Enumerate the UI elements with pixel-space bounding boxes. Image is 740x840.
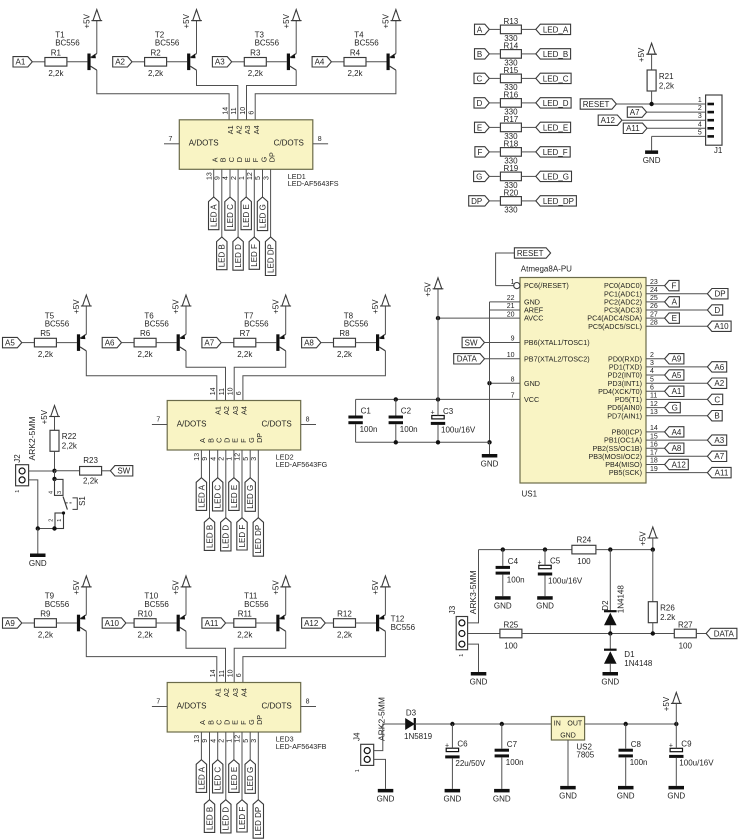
- net tag LED_C: [536, 73, 571, 83]
- net tag A6: [707, 362, 726, 372]
- svg-text:C2: C2: [401, 407, 412, 416]
- wire: [490, 301, 521, 303]
- svg-text:A3: A3: [215, 58, 225, 67]
- resistor R10: [134, 619, 156, 628]
- wire: [209, 450, 211, 518]
- wire: [374, 724, 406, 751]
- svg-text:IN: IN: [554, 720, 561, 727]
- wire: [54, 451, 56, 471]
- wire: [489, 126, 500, 128]
- svg-text:21: 21: [507, 303, 515, 310]
- resistor R5: [34, 338, 56, 347]
- wire: [325, 622, 333, 624]
- ground: [471, 672, 487, 676]
- wire: [521, 175, 535, 177]
- wire: [301, 424, 316, 426]
- svg-text:C/DOTS: C/DOTS: [274, 139, 304, 148]
- svg-text:2: 2: [219, 457, 226, 461]
- wire: [167, 61, 188, 63]
- wire: [301, 706, 316, 708]
- svg-text:10: 10: [240, 107, 247, 115]
- wire: [196, 21, 198, 54]
- wire: [384, 587, 386, 615]
- resistor R24: [572, 545, 596, 554]
- svg-text:C9: C9: [681, 740, 692, 749]
- net tag LED_E: [536, 122, 571, 132]
- net tag D: [474, 98, 489, 108]
- wire: [243, 351, 386, 401]
- svg-text:R19: R19: [504, 164, 519, 173]
- svg-text:7: 7: [156, 417, 160, 424]
- svg-text:PC6(/RESET): PC6(/RESET): [524, 281, 569, 290]
- svg-text:LED C: LED C: [226, 204, 235, 228]
- svg-text:5: 5: [698, 129, 702, 136]
- svg-text:C4: C4: [508, 557, 519, 566]
- +5V supply: [182, 576, 190, 587]
- wire: [616, 103, 705, 105]
- net tag LED C: [213, 478, 223, 511]
- junction: [651, 631, 655, 635]
- svg-text:A4: A4: [240, 688, 249, 697]
- resistor R14: [500, 50, 521, 59]
- svg-text:SW: SW: [465, 338, 478, 347]
- svg-text:2,2k: 2,2k: [48, 69, 64, 78]
- svg-text:4: 4: [650, 368, 654, 375]
- net tag RESET: [580, 99, 616, 109]
- svg-text:LED E: LED E: [230, 485, 239, 508]
- net tag LED D: [221, 800, 231, 833]
- svg-text:GND: GND: [444, 794, 462, 803]
- svg-text:11: 11: [650, 393, 657, 400]
- junction: [394, 397, 398, 401]
- svg-text:+5V: +5V: [271, 580, 280, 595]
- transistor T4: [387, 54, 390, 71]
- svg-text:C6: C6: [457, 740, 468, 749]
- wire: [200, 732, 202, 760]
- wire: [651, 91, 653, 104]
- svg-text:5: 5: [255, 176, 262, 180]
- +5V supply: [83, 576, 91, 587]
- capacitor C9: [670, 748, 682, 751]
- wire: [384, 306, 386, 334]
- svg-text:LED A: LED A: [197, 766, 206, 789]
- svg-text:14: 14: [210, 669, 217, 677]
- wire: [270, 169, 272, 237]
- net tag LED F: [237, 518, 247, 550]
- wire: [233, 732, 235, 760]
- junction: [394, 440, 398, 444]
- svg-text:100u/16V: 100u/16V: [679, 759, 714, 768]
- resistor R11: [234, 619, 256, 628]
- net tag LED F: [249, 237, 259, 269]
- wire: [646, 439, 707, 441]
- +5V supply: [392, 10, 400, 21]
- svg-text:+5V: +5V: [82, 13, 91, 28]
- svg-text:C1: C1: [361, 407, 372, 416]
- resistor R2: [145, 58, 167, 67]
- svg-text:7: 7: [511, 393, 515, 400]
- svg-text:F: F: [477, 148, 482, 157]
- junction: [543, 547, 547, 551]
- display LED1 LED-AF5643FS: [179, 120, 312, 170]
- net tag A1: [13, 57, 32, 67]
- ground: [495, 596, 511, 600]
- svg-text:8: 8: [318, 136, 322, 143]
- svg-text:A8: A8: [672, 444, 682, 453]
- resistor R22: [50, 430, 59, 451]
- wire: [646, 374, 665, 376]
- svg-text:1N4148: 1N4148: [624, 659, 653, 668]
- svg-text:15: 15: [650, 433, 658, 440]
- svg-text:+5V: +5V: [382, 13, 391, 28]
- svg-text:LED D: LED D: [234, 244, 243, 268]
- svg-text:DP: DP: [714, 290, 725, 299]
- svg-text:A7: A7: [714, 452, 724, 461]
- net tag LED_D: [536, 98, 571, 108]
- wire: [544, 550, 546, 566]
- net tag G: [474, 171, 490, 181]
- svg-text:BC556: BC556: [45, 600, 70, 609]
- wire: [496, 285, 514, 287]
- wire: [355, 399, 357, 415]
- svg-text:A11: A11: [715, 469, 729, 478]
- net tag LED DP: [253, 518, 263, 557]
- net tag LED_G: [536, 171, 572, 181]
- svg-text:GND: GND: [524, 379, 540, 388]
- svg-text:A9: A9: [672, 355, 682, 364]
- svg-text:E: E: [477, 123, 482, 132]
- svg-text:US1: US1: [522, 490, 538, 499]
- wire: [225, 450, 227, 518]
- net tag A8: [302, 337, 321, 347]
- svg-text:GND: GND: [470, 677, 488, 686]
- svg-text:A12: A12: [304, 619, 319, 628]
- svg-text:A7: A7: [204, 339, 214, 348]
- svg-text:BC556: BC556: [255, 39, 280, 48]
- wire: [609, 664, 611, 672]
- resistor R23: [80, 467, 102, 476]
- svg-text:VCC: VCC: [524, 395, 539, 404]
- svg-text:+5V: +5V: [371, 299, 380, 314]
- svg-text:2: 2: [219, 739, 226, 743]
- svg-text:R17: R17: [504, 115, 519, 124]
- svg-text:GND: GND: [559, 791, 577, 800]
- svg-text:+5V: +5V: [271, 299, 280, 314]
- svg-text:100: 100: [504, 641, 518, 650]
- svg-text:A3: A3: [231, 688, 240, 697]
- svg-text:2,2k: 2,2k: [248, 69, 264, 78]
- +5V supply: [83, 295, 91, 306]
- svg-text:R23: R23: [83, 456, 98, 465]
- svg-text:1N4148: 1N4148: [617, 585, 626, 614]
- ground: [618, 786, 634, 790]
- wire: [521, 77, 535, 79]
- svg-text:R24: R24: [577, 535, 592, 544]
- net tag A4: [312, 57, 331, 67]
- net tag A9: [3, 618, 22, 628]
- svg-text:PB6(XTAL1/TOSC1): PB6(XTAL1/TOSC1): [524, 338, 590, 347]
- junction: [52, 469, 56, 473]
- svg-text:28: 28: [650, 319, 658, 326]
- wire: [485, 358, 521, 360]
- svg-text:13: 13: [206, 172, 213, 180]
- svg-text:5: 5: [243, 457, 250, 461]
- net tag SW: [462, 337, 484, 347]
- svg-text:5: 5: [243, 739, 250, 743]
- svg-text:A/DOTS: A/DOTS: [189, 139, 219, 148]
- wire: [313, 143, 328, 145]
- svg-text:LED_C: LED_C: [543, 74, 569, 83]
- svg-text:B: B: [714, 412, 719, 421]
- svg-text:A11: A11: [205, 619, 219, 628]
- junction: [436, 397, 440, 401]
- wire: [221, 169, 223, 237]
- svg-text:LED G: LED G: [246, 767, 255, 791]
- net tag G: [665, 402, 681, 412]
- svg-text:14: 14: [222, 107, 229, 115]
- svg-text:R1: R1: [51, 48, 62, 57]
- wire: [255, 70, 396, 120]
- svg-text:G: G: [672, 403, 678, 412]
- net tag D: [707, 305, 722, 315]
- svg-text:2,2k: 2,2k: [38, 630, 54, 639]
- net tag LED DP: [253, 800, 263, 839]
- net tag LED_B: [536, 49, 571, 59]
- wire: [321, 342, 334, 344]
- svg-text:ARK3-5MM: ARK3-5MM: [468, 570, 478, 614]
- junction: [500, 722, 504, 726]
- junction: [436, 440, 440, 444]
- svg-text:2,2k: 2,2k: [237, 350, 253, 359]
- wire: [234, 351, 286, 401]
- net tag B: [475, 49, 490, 59]
- capacitor C2: [389, 416, 403, 419]
- wire: [295, 21, 297, 54]
- net tag A12: [598, 115, 622, 125]
- transistor T11: [276, 615, 279, 632]
- svg-text:2,2k: 2,2k: [138, 630, 154, 639]
- wire: [152, 706, 167, 708]
- svg-text:PB5(SCK): PB5(SCK): [609, 468, 642, 477]
- wire: [122, 342, 135, 344]
- svg-text:LED C: LED C: [214, 485, 223, 509]
- wire: [86, 631, 217, 682]
- wire: [37, 529, 39, 554]
- svg-text:GND: GND: [667, 791, 685, 800]
- svg-text:4: 4: [210, 457, 217, 461]
- ground: [30, 554, 46, 558]
- svg-text:LED_D: LED_D: [543, 99, 569, 108]
- junction: [608, 547, 612, 551]
- svg-text:+: +: [445, 742, 449, 749]
- capacitor C7: [495, 749, 509, 752]
- svg-text:+5V: +5V: [172, 299, 181, 314]
- net tag LED F: [237, 800, 247, 832]
- wire: [646, 301, 665, 303]
- svg-text:10: 10: [228, 669, 235, 677]
- svg-text:LED D: LED D: [222, 525, 231, 549]
- svg-text:D2: D2: [601, 600, 610, 611]
- wire: [502, 575, 504, 597]
- svg-text:A1: A1: [226, 125, 235, 134]
- wire: [85, 587, 87, 615]
- svg-text:LED B: LED B: [205, 525, 214, 548]
- junction: [36, 526, 40, 530]
- wire: [355, 424, 357, 442]
- wire: [468, 550, 479, 623]
- svg-text:LED_A: LED_A: [543, 25, 569, 34]
- wire: [257, 732, 259, 800]
- wire: [395, 424, 397, 442]
- wire: [249, 732, 251, 760]
- svg-text:26: 26: [650, 303, 658, 310]
- svg-text:R4: R4: [350, 48, 361, 57]
- svg-text:12: 12: [235, 735, 242, 743]
- wire: [197, 70, 238, 120]
- transistor T7: [276, 334, 279, 351]
- svg-text:R13: R13: [504, 17, 519, 26]
- svg-text:R11: R11: [238, 610, 253, 619]
- wire: [521, 53, 535, 55]
- svg-text:LED_DP: LED_DP: [543, 197, 574, 206]
- svg-text:GND: GND: [481, 459, 499, 468]
- wire: [438, 317, 520, 319]
- net tag A5: [3, 337, 22, 347]
- ground: [445, 789, 461, 793]
- svg-text:2,2k: 2,2k: [337, 350, 353, 359]
- net tag C: [474, 73, 489, 83]
- net tag A11: [707, 467, 731, 477]
- net tag C: [707, 394, 722, 404]
- net tag SW: [110, 466, 132, 476]
- wire (ground rail): [356, 441, 490, 443]
- net tag A12: [665, 459, 689, 469]
- ground: [482, 454, 498, 458]
- net tag LED E: [241, 197, 251, 230]
- resistor R27: [674, 629, 696, 638]
- svg-text:D: D: [714, 306, 720, 315]
- wire: [675, 724, 677, 748]
- svg-text:A/DOTS: A/DOTS: [177, 701, 207, 710]
- junction: [674, 722, 678, 726]
- svg-text:100u/16V: 100u/16V: [548, 576, 583, 585]
- wire: [200, 450, 202, 478]
- net tag A12: [302, 618, 326, 628]
- wire: [646, 472, 707, 474]
- capacitor C1: [348, 416, 362, 419]
- +5V supply: [382, 576, 390, 587]
- svg-text:2,2k: 2,2k: [138, 350, 154, 359]
- svg-text:+5V: +5V: [72, 580, 81, 595]
- svg-text:A/DOTS: A/DOTS: [177, 419, 207, 428]
- svg-text:GND: GND: [560, 733, 576, 740]
- svg-text:9: 9: [202, 457, 209, 461]
- svg-text:LED DP: LED DP: [267, 244, 276, 273]
- svg-text:A5: A5: [5, 339, 15, 348]
- wire: [485, 342, 521, 344]
- +5V supply: [382, 295, 390, 306]
- svg-text:A9: A9: [5, 619, 15, 628]
- net tag LED G: [257, 197, 267, 231]
- net tag A7: [707, 451, 726, 461]
- net tag LED_A: [536, 24, 571, 34]
- svg-text:RESET: RESET: [517, 249, 544, 258]
- wire: [609, 634, 611, 650]
- wire: [226, 622, 234, 624]
- svg-text:GND: GND: [29, 559, 47, 568]
- net tag F: [475, 147, 489, 157]
- svg-text:1: 1: [459, 654, 465, 657]
- switch S1: [54, 471, 56, 479]
- svg-text:LED F: LED F: [250, 244, 259, 267]
- svg-text:PB7(XTAL2/TOSC2): PB7(XTAL2/TOSC2): [524, 354, 590, 363]
- svg-text:A3: A3: [714, 436, 724, 445]
- wire: [652, 623, 654, 634]
- svg-text:E: E: [672, 314, 677, 323]
- svg-text:1: 1: [15, 490, 21, 493]
- net tag A8: [665, 443, 684, 453]
- svg-text:12: 12: [650, 401, 658, 408]
- svg-text:ARK2-5MM: ARK2-5MM: [376, 697, 386, 741]
- resistor R25: [500, 629, 522, 638]
- svg-text:6: 6: [236, 673, 243, 677]
- svg-text:A4: A4: [672, 428, 682, 437]
- svg-text:C7: C7: [507, 740, 518, 749]
- svg-text:PC5(ADC5/SCL): PC5(ADC5/SCL): [588, 322, 642, 331]
- wire: [38, 528, 55, 530]
- wire: [22, 342, 35, 344]
- resistor R6: [134, 338, 156, 347]
- net tag A: [665, 297, 680, 307]
- wire: [652, 550, 654, 602]
- wire: [646, 390, 665, 392]
- wire: [652, 538, 654, 550]
- svg-text:10: 10: [228, 387, 235, 395]
- connector J1: [706, 95, 722, 145]
- svg-text:A2: A2: [115, 58, 125, 67]
- wire: [521, 126, 535, 128]
- svg-text:100n: 100n: [630, 758, 648, 767]
- wire: [567, 740, 569, 786]
- svg-text:16: 16: [650, 441, 658, 448]
- svg-text:LED DP: LED DP: [254, 525, 263, 554]
- resistor R8: [334, 338, 356, 347]
- svg-text:A11: A11: [626, 124, 640, 133]
- svg-text:LED C: LED C: [214, 767, 223, 791]
- wire: [415, 723, 552, 725]
- svg-text:A8: A8: [304, 339, 314, 348]
- net tag LED A: [196, 478, 206, 511]
- wire: [451, 758, 453, 789]
- wire: [234, 631, 286, 682]
- transistor T6: [177, 334, 180, 351]
- svg-text:3: 3: [251, 739, 258, 743]
- svg-text:BC556: BC556: [244, 600, 269, 609]
- svg-text:A2: A2: [235, 125, 244, 134]
- resistor R17: [500, 123, 521, 132]
- svg-text:5: 5: [650, 376, 654, 383]
- capacitor C8: [619, 749, 633, 752]
- ground: [378, 789, 394, 793]
- svg-text:+: +: [431, 410, 435, 417]
- transistor T3: [287, 54, 290, 71]
- net tag A4: [665, 427, 684, 437]
- svg-text:14: 14: [650, 425, 658, 432]
- wire: [646, 447, 665, 449]
- wire: [374, 759, 386, 789]
- net tag A2: [113, 57, 132, 67]
- svg-text:2,2k: 2,2k: [347, 69, 363, 78]
